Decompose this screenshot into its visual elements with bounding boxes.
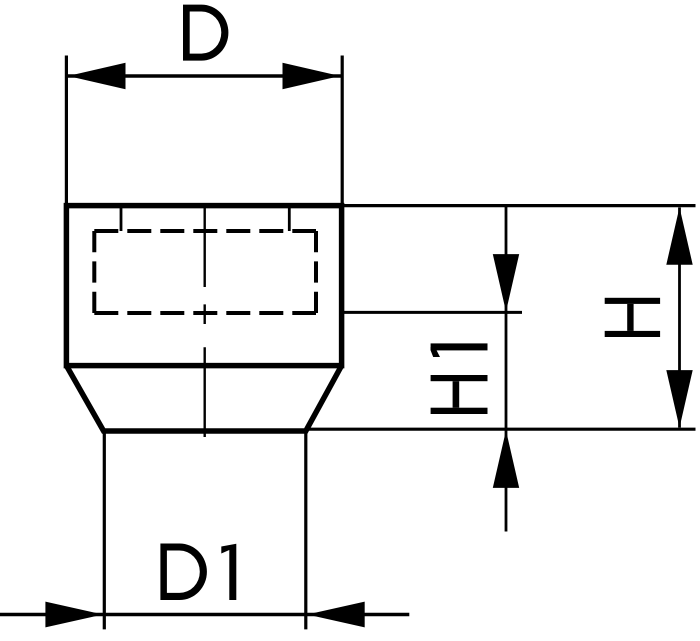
label D1 : glyph 1 [221,544,236,600]
vertical centerline [203,204,205,438]
label H (right dimension, rotated) [605,298,660,337]
hidden bore dashed top line [94,229,316,233]
dimension H arrowhead bottom [666,370,692,428]
dimension H arrowhead top [666,207,692,265]
dimension H1 line [505,206,508,532]
dimension D1 arrowhead right (points left) [307,602,365,628]
dimension H line [678,208,681,428]
hidden bore dashed bottom line [94,311,316,315]
hidden bore dashed left line [92,231,96,313]
dimension D extension line left [65,56,68,205]
thread mark left [120,206,123,231]
dimension H top extension line [344,204,696,207]
label H1 : glyph 1 [431,343,488,357]
dimension D1 line [0,613,409,617]
label D (top dimension) [183,5,228,61]
dimension H1 arrowhead lower (points up) [493,430,519,488]
dimension D arrowhead left [68,63,126,89]
dimension D line [67,74,341,77]
dimension H1 arrowhead upper (points down) [493,254,519,312]
dimension H1 top extension line [342,311,522,314]
part body outline [66,206,341,366]
taper (conical section) outline [66,366,341,431]
label D1 (bottom dimension) : glyph D [160,544,207,601]
hidden bore dashed right line [314,231,318,313]
dimension D extension line right [341,56,344,205]
label H1 (right dimension, rotated) : glyph H [431,375,488,414]
bottom extension line shared by H and H1 [308,428,696,431]
thread mark right [288,206,291,231]
dimension D arrowhead right [283,63,341,89]
neck left side / D1 extension line left [103,432,106,629]
neck right side / D1 extension line right [304,432,307,629]
dimension D1 arrowhead left (points right) [45,602,103,628]
